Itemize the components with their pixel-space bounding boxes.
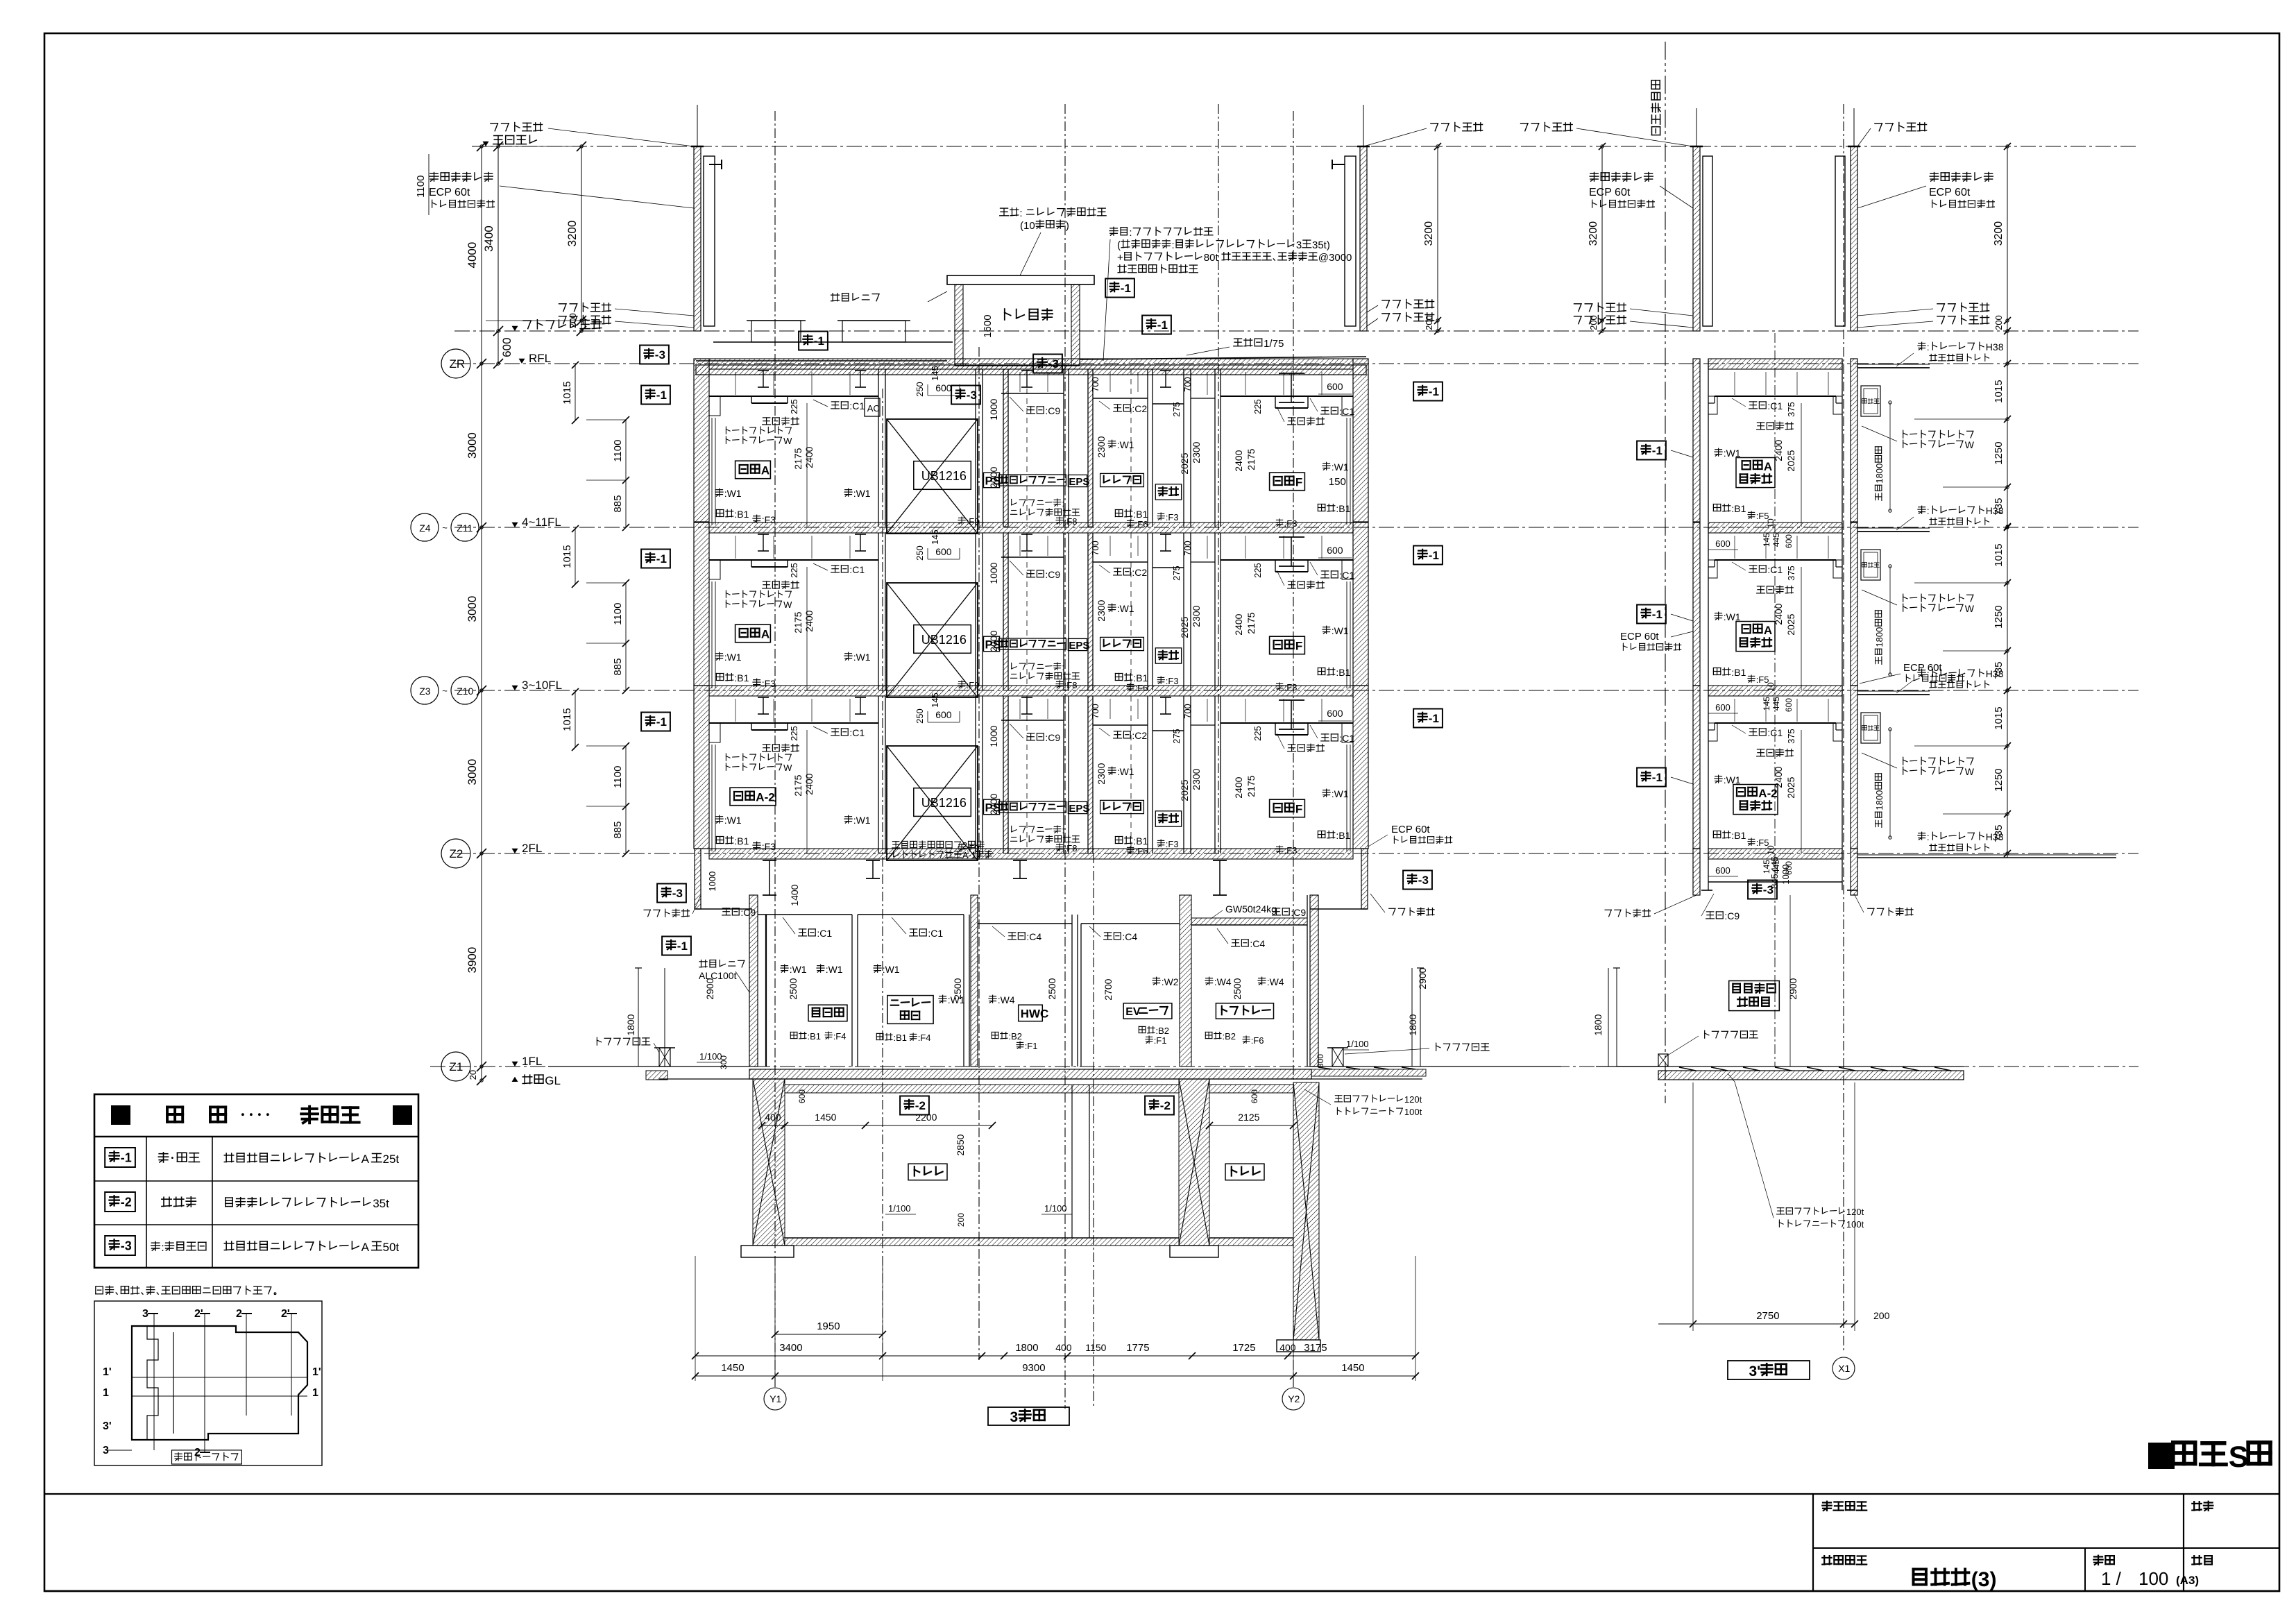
svg-text:1000: 1000 <box>988 725 999 747</box>
svg-text:1250: 1250 <box>1993 441 2005 464</box>
ceiling hangers <box>1734 536 1735 559</box>
curtain boxes <box>709 723 720 742</box>
svg-text:3000: 3000 <box>466 596 479 622</box>
svg-text:1/100: 1/100 <box>1346 1039 1369 1049</box>
rotated dims <box>789 563 799 578</box>
svg-text:1450: 1450 <box>721 1362 744 1374</box>
svg-text:145: 145 <box>930 366 940 381</box>
svg-text::W1: :W1 <box>1117 439 1134 450</box>
svg-text::W1: :W1 <box>853 652 871 663</box>
svg-text:700: 700 <box>1090 704 1100 719</box>
svg-text:-2: -2 <box>121 1196 132 1209</box>
svg-text:3400: 3400 <box>482 226 495 252</box>
floor slab <box>709 522 1353 533</box>
svg-text:-1: -1 <box>656 389 667 402</box>
svg-text::B2: :B2 <box>1009 1031 1023 1042</box>
svg-text:1150: 1150 <box>1085 1342 1106 1353</box>
grid bubble ZR <box>441 349 470 378</box>
svg-text:600: 600 <box>1327 545 1343 556</box>
right sec 2F slab <box>1708 849 1842 859</box>
svg-text:2900: 2900 <box>1787 978 1798 999</box>
svg-text::C1: :C1 <box>1767 727 1783 738</box>
svg-text:H38: H38 <box>1986 668 2004 679</box>
ground interior walls <box>765 915 767 1067</box>
svg-text:F: F <box>1295 476 1302 489</box>
interior dims 1100/885 <box>625 583 627 690</box>
svg-text::: : <box>1129 227 1132 239</box>
svg-text::W4: :W4 <box>998 994 1015 1005</box>
room label <box>1736 458 1775 488</box>
svg-text::B1: :B1 <box>1336 830 1350 841</box>
svg-text::C9: :C9 <box>1291 907 1306 918</box>
svg-text:600: 600 <box>1784 534 1794 548</box>
svg-text:EPS: EPS <box>1069 640 1089 652</box>
svg-text:100: 100 <box>2138 1568 2168 1589</box>
pit upper slab (dan-2) <box>785 1085 1179 1093</box>
I-beams under slab <box>758 697 769 698</box>
svg-text::W1: :W1 <box>1724 774 1741 785</box>
level grid lines <box>472 146 2138 147</box>
svg-text:-3: -3 <box>1418 874 1429 887</box>
svg-text:W: W <box>783 600 792 610</box>
svg-text:RFL: RFL <box>529 352 551 365</box>
floor slab <box>709 686 1353 696</box>
room labels <box>730 788 776 806</box>
svg-text:AC: AC <box>867 403 880 414</box>
right sec ground <box>1596 1066 1658 1067</box>
svg-text::W4: :W4 <box>1214 976 1232 987</box>
svg-text:145: 145 <box>1762 533 1771 547</box>
svg-text:UB1216: UB1216 <box>921 796 967 810</box>
pit labels <box>908 1164 947 1180</box>
svg-text:A: A <box>362 1153 370 1166</box>
svg-text:600: 600 <box>935 546 952 557</box>
svg-text::: : <box>1062 825 1064 835</box>
svg-text:Z2: Z2 <box>450 847 464 860</box>
partitions <box>878 369 879 527</box>
svg-text:Z10: Z10 <box>457 686 473 697</box>
svg-text:225: 225 <box>789 563 799 578</box>
svg-text::C4: :C4 <box>1122 931 1137 942</box>
svg-text:1': 1' <box>103 1366 112 1378</box>
svg-text:-1: -1 <box>814 334 824 348</box>
svg-text:2300: 2300 <box>1096 436 1107 457</box>
svg-text:1100: 1100 <box>415 176 427 198</box>
svg-text:200: 200 <box>956 1213 966 1227</box>
svg-text:2175: 2175 <box>792 448 803 469</box>
right dim chain <box>2007 146 2008 858</box>
svg-text::W1: :W1 <box>826 964 843 975</box>
svg-text::W1: :W1 <box>1332 461 1349 473</box>
ext lines to chain <box>1914 418 2007 420</box>
right exterior wall <box>1353 522 1368 686</box>
svg-text::C1: :C1 <box>1339 733 1354 744</box>
ceiling hangers <box>735 372 736 395</box>
svg-text:2400: 2400 <box>1773 603 1784 624</box>
svg-text:2300: 2300 <box>1191 768 1202 790</box>
svg-text:ECP 60t: ECP 60t <box>1391 824 1430 835</box>
right section floor <box>1708 359 1842 369</box>
svg-text:700: 700 <box>1182 704 1193 719</box>
finish labels <box>831 565 838 566</box>
svg-text:1: 1 <box>312 1387 318 1399</box>
svg-text:2400: 2400 <box>803 446 815 468</box>
svg-text:1100: 1100 <box>612 766 624 788</box>
svg-text:(3): (3) <box>1971 1568 1997 1591</box>
svg-text::: : <box>161 1242 164 1254</box>
svg-text::W1: :W1 <box>1332 788 1349 799</box>
roof curb 2 <box>842 321 905 342</box>
svg-text:ECP 60t: ECP 60t <box>1903 662 1942 674</box>
dan <box>1637 768 1666 787</box>
svg-text:1015: 1015 <box>1993 380 2005 402</box>
right wall above drop <box>1361 849 1368 909</box>
right roof screen wall <box>1360 146 1367 331</box>
svg-text:200: 200 <box>1424 315 1434 330</box>
svg-text:200: 200 <box>1873 1310 1890 1321</box>
roof slab <box>696 365 1366 375</box>
svg-text:-3: -3 <box>672 887 683 900</box>
bottom dimension lines <box>695 1256 696 1381</box>
svg-text:4~11FL: 4~11FL <box>522 516 561 529</box>
svg-text::F3: :F3 <box>1166 839 1179 849</box>
room F midspan beam <box>1279 536 1304 538</box>
grid bubble Z1 <box>441 1052 470 1081</box>
outdoor unit <box>1861 550 1880 580</box>
svg-text:-3: -3 <box>655 348 665 362</box>
svg-text:375: 375 <box>1786 729 1796 744</box>
svg-text::C4: :C4 <box>1026 931 1041 942</box>
balcony grating <box>1857 531 1930 532</box>
svg-text::W4: :W4 <box>1267 976 1284 987</box>
svg-text:GW50t24kg: GW50t24kg <box>1225 903 1277 915</box>
svg-text:20: 20 <box>468 1070 478 1080</box>
svg-text:3000: 3000 <box>466 759 479 785</box>
ceilings <box>709 559 878 561</box>
dan <box>1637 441 1666 460</box>
svg-text:1800: 1800 <box>1407 1014 1418 1035</box>
svg-text:2000: 2000 <box>988 793 999 815</box>
dan boxes <box>641 386 670 405</box>
room label <box>1736 622 1775 652</box>
ceiling hangers <box>1734 372 1735 395</box>
interior dims 1015 <box>575 529 576 584</box>
interior dims 1015 <box>575 692 576 747</box>
UB1216 unit bath <box>887 419 978 534</box>
curtain label <box>1903 594 1904 602</box>
svg-text:250: 250 <box>915 382 925 397</box>
svg-text:~: ~ <box>442 686 448 696</box>
svg-text:2300: 2300 <box>1191 441 1202 463</box>
svg-text:300: 300 <box>719 1055 729 1069</box>
svg-text:A: A <box>761 628 769 641</box>
svg-text:2300: 2300 <box>1191 605 1202 627</box>
room F midspan beam <box>1279 373 1304 374</box>
svg-text:1015: 1015 <box>561 708 573 731</box>
svg-text:GL: GL <box>545 1074 561 1087</box>
svg-text:1 /: 1 / <box>2101 1568 2122 1589</box>
svg-text:445: 445 <box>1771 533 1781 547</box>
svg-text::C9: :C9 <box>1724 910 1740 921</box>
svg-text:-2: -2 <box>1160 1099 1171 1112</box>
svg-text:1450: 1450 <box>815 1112 836 1123</box>
left wall above (parapet drop) <box>695 849 701 909</box>
svg-text:2175: 2175 <box>792 774 803 796</box>
svg-text:2400: 2400 <box>1233 450 1244 471</box>
svg-text:3200: 3200 <box>1588 221 1599 246</box>
dan boxes <box>641 550 670 568</box>
AC unit <box>865 398 880 416</box>
big structure label <box>2148 1443 2175 1469</box>
svg-text:2200: 2200 <box>915 1112 937 1123</box>
svg-text:3000: 3000 <box>466 432 479 459</box>
finish labels <box>831 401 838 402</box>
svg-text:375: 375 <box>1786 402 1796 417</box>
svg-text:-1: -1 <box>1652 771 1663 784</box>
svg-text:600: 600 <box>935 709 952 720</box>
svg-text:700: 700 <box>1182 377 1193 392</box>
level labels <box>483 142 489 146</box>
svg-text:1725: 1725 <box>1232 1342 1255 1354</box>
svg-text::W1: :W1 <box>724 815 742 826</box>
svg-text:2400: 2400 <box>1773 439 1784 461</box>
svg-text:1000: 1000 <box>1780 865 1791 885</box>
UB1216 unit bath <box>887 583 978 697</box>
svg-text:2400: 2400 <box>1233 776 1244 798</box>
svg-text:1100: 1100 <box>612 440 624 462</box>
svg-text:X1: X1 <box>1838 1363 1850 1374</box>
svg-text:+: + <box>1117 252 1123 264</box>
dan boxes <box>641 713 670 731</box>
svg-text:2175: 2175 <box>1245 775 1257 797</box>
svg-text::C1: :C1 <box>1339 406 1354 417</box>
ground ceilings <box>758 914 852 915</box>
svg-text:885: 885 <box>612 822 624 839</box>
svg-text:375: 375 <box>1786 566 1796 581</box>
svg-text:ECP 60t: ECP 60t <box>1589 187 1631 198</box>
svg-text:-1: -1 <box>677 940 688 953</box>
svg-text:H38: H38 <box>1986 831 2004 842</box>
svg-text:3200: 3200 <box>1993 221 2005 246</box>
svg-text::C1: :C1 <box>849 727 865 738</box>
room label <box>1733 785 1778 815</box>
svg-text:2025: 2025 <box>1785 776 1796 798</box>
svg-text:35t: 35t <box>373 1197 389 1210</box>
svg-text:400: 400 <box>1055 1342 1072 1353</box>
svg-text:600: 600 <box>1327 381 1343 392</box>
svg-text::W1: :W1 <box>724 652 742 663</box>
svg-text:600: 600 <box>797 1089 807 1103</box>
svg-text:1: 1 <box>103 1387 109 1399</box>
svg-text:W: W <box>1965 603 1975 614</box>
svg-text:885: 885 <box>612 495 624 513</box>
window lines <box>711 418 713 525</box>
ceilings <box>709 722 878 724</box>
svg-text::F3: :F3 <box>1166 676 1179 686</box>
svg-text:H38: H38 <box>1986 505 2004 516</box>
curtain boxes <box>709 396 720 416</box>
svg-text:600: 600 <box>1250 1089 1259 1103</box>
svg-text:Y1: Y1 <box>769 1393 781 1404</box>
svg-text:W: W <box>1965 439 1975 450</box>
vertical grid lines <box>774 111 776 1388</box>
svg-text::C9: :C9 <box>1045 405 1060 416</box>
svg-text::W1: :W1 <box>883 964 900 975</box>
svg-text:2700: 2700 <box>1103 978 1114 1000</box>
svg-text:1/100: 1/100 <box>888 1203 911 1214</box>
title block <box>44 1493 2279 1495</box>
svg-text::W1: :W1 <box>1724 611 1741 622</box>
svg-text:W: W <box>783 763 792 773</box>
svg-text:Z11: Z11 <box>457 522 473 534</box>
svg-text::: : <box>1927 341 1930 352</box>
svg-text::W2: :W2 <box>1162 976 1179 987</box>
UB1216 unit bath <box>887 746 978 860</box>
svg-text:1000: 1000 <box>988 398 999 420</box>
svg-text:145: 145 <box>930 692 940 708</box>
right exterior wall <box>1353 686 1368 849</box>
svg-text:S: S <box>2229 1441 2249 1474</box>
ceiling hangers <box>735 536 736 559</box>
svg-text::B1: :B1 <box>734 672 749 683</box>
svg-text:2900: 2900 <box>1417 967 1428 989</box>
boundary line <box>1665 42 1666 1103</box>
svg-text::C1: :C1 <box>849 564 865 575</box>
svg-text:885: 885 <box>612 658 624 676</box>
svg-text:2175: 2175 <box>792 611 803 633</box>
svg-text::W1: :W1 <box>1724 448 1741 459</box>
svg-text:1250: 1250 <box>1993 605 2005 628</box>
svg-text:(A3): (A3) <box>2176 1574 2199 1587</box>
svg-text::B2: :B2 <box>1156 1026 1170 1036</box>
finish labels <box>831 728 838 729</box>
1FL ground slab <box>548 1066 749 1067</box>
svg-text::B1: :B1 <box>734 835 749 847</box>
svg-text:3400: 3400 <box>779 1342 802 1354</box>
svg-text::B1: :B1 <box>1336 667 1350 678</box>
svg-text:600: 600 <box>935 382 952 393</box>
ceiling <box>1715 396 1836 397</box>
svg-text:145: 145 <box>930 529 940 545</box>
svg-text:UB1216: UB1216 <box>921 469 967 483</box>
svg-text:225: 225 <box>789 399 799 414</box>
svg-text::B1: :B1 <box>734 509 749 520</box>
svg-text:-1: -1 <box>1429 549 1439 562</box>
ground exterior walls <box>749 895 758 1067</box>
svg-text:1015: 1015 <box>561 545 573 568</box>
svg-text::W1: :W1 <box>790 964 807 975</box>
svg-text:-1: -1 <box>1652 444 1663 457</box>
svg-text:Z3: Z3 <box>419 686 431 697</box>
roof curb 1 <box>751 321 801 342</box>
svg-text:A-2: A-2 <box>756 791 774 804</box>
curtain label <box>1903 430 1904 438</box>
svg-text::C1: :C1 <box>928 928 943 939</box>
svg-text::B1: :B1 <box>1731 667 1746 678</box>
far right pier <box>1293 1082 1319 1340</box>
svg-text::C2: :C2 <box>1132 567 1147 578</box>
svg-text::B1: :B1 <box>1133 672 1148 683</box>
svg-text:145: 145 <box>1769 856 1780 872</box>
svg-text:): ) <box>1066 220 1069 232</box>
svg-text:200: 200 <box>1993 315 2004 330</box>
key plan box <box>94 1301 322 1465</box>
svg-text:1/75: 1/75 <box>1264 338 1284 350</box>
svg-text:4000: 4000 <box>466 242 479 269</box>
svg-text:A: A <box>761 464 769 477</box>
rotated dims <box>789 726 799 741</box>
svg-text::B1: :B1 <box>1731 830 1746 841</box>
I-beams under slab <box>758 534 769 535</box>
svg-text:3900: 3900 <box>466 947 479 974</box>
svg-text:2000: 2000 <box>988 630 999 652</box>
svg-text:2900: 2900 <box>704 978 715 999</box>
svg-text::F6: :F6 <box>1251 1035 1264 1046</box>
svg-text:275: 275 <box>1171 566 1182 581</box>
svg-text:1': 1' <box>312 1366 321 1378</box>
svg-text:2750: 2750 <box>1756 1310 1779 1322</box>
svg-text::F4: :F4 <box>918 1033 931 1043</box>
svg-text:F: F <box>1295 803 1302 816</box>
svg-text:3~10FL: 3~10FL <box>522 679 562 692</box>
svg-text::C1: :C1 <box>1767 564 1783 575</box>
pinkon foundations <box>659 1048 670 1067</box>
svg-text:300: 300 <box>1316 1054 1325 1068</box>
svg-text:ECP 60t: ECP 60t <box>1929 187 1971 198</box>
svg-text:-2: -2 <box>915 1099 926 1112</box>
svg-text:ZR: ZR <box>450 357 466 371</box>
svg-text:600: 600 <box>1327 708 1343 719</box>
svg-text::C1: :C1 <box>817 928 832 939</box>
svg-text:2400: 2400 <box>803 773 815 794</box>
svg-text:3: 3 <box>1010 1409 1019 1425</box>
svg-text:9300: 9300 <box>1022 1362 1045 1374</box>
svg-text:2500: 2500 <box>1232 978 1243 999</box>
pit left pier <box>753 1079 785 1246</box>
svg-text:W: W <box>1965 766 1975 777</box>
note under legend <box>96 1286 103 1287</box>
room labels <box>735 461 771 479</box>
svg-text:400: 400 <box>1279 1342 1296 1353</box>
ceilings <box>709 396 878 397</box>
window lines <box>711 581 713 688</box>
svg-text:3: 3 <box>142 1308 148 1320</box>
X1 bubble <box>1832 1357 1855 1379</box>
svg-text:225: 225 <box>1252 563 1263 578</box>
svg-text::B1: :B1 <box>894 1033 908 1043</box>
right section title <box>1728 1361 1810 1379</box>
svg-text:2850: 2850 <box>955 1134 966 1155</box>
curtain boxes <box>709 560 720 579</box>
svg-text:A: A <box>1764 460 1772 473</box>
svg-text:100t: 100t <box>1404 1107 1422 1117</box>
svg-text::: : <box>1927 505 1930 516</box>
svg-text:ECP 60t: ECP 60t <box>1620 631 1659 643</box>
bicycle parking label <box>1729 981 1780 1011</box>
svg-text:(10: (10 <box>1020 220 1035 232</box>
left roof screen wall <box>694 146 701 331</box>
svg-text::: : <box>1062 498 1064 509</box>
svg-text::B1: :B1 <box>1133 835 1148 847</box>
svg-text:445: 445 <box>1771 697 1781 711</box>
svg-text:50t: 50t <box>383 1241 400 1254</box>
floor slab <box>709 359 1353 369</box>
svg-text::W1: :W1 <box>1117 603 1134 614</box>
outdoor unit <box>1861 386 1880 416</box>
svg-text::C2: :C2 <box>1132 403 1147 414</box>
interior dims 1015 <box>575 365 576 420</box>
svg-text::B1: :B1 <box>1336 503 1350 514</box>
